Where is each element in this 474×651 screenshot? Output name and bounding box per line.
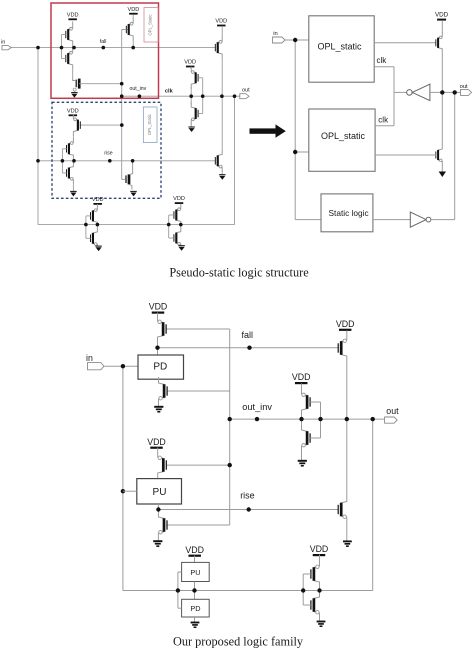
label clk (top schematic) [165, 89, 174, 95]
supply VDD T1 [149, 302, 168, 313]
box red highlight (first OPL stage) [51, 3, 159, 98]
wire vertical from input node down to keeper rail [37, 48, 39, 225]
svg-text:out: out [386, 406, 399, 416]
block PU (pull-up network) [137, 479, 182, 504]
wire M4 gate lead short [122, 29, 127, 31]
transistor T7 PMOS (above PU) [158, 451, 167, 479]
supply VDD right keeper bottom [173, 196, 185, 203]
label rise (bottom) [240, 490, 255, 500]
wire keeper PMOS M4 gate lead [122, 29, 130, 31]
node junction block (295.2,152) [293, 150, 297, 154]
svg-text:clk: clk [377, 56, 388, 65]
transistor M2 PMOS (red stage lower) [66, 47, 73, 69]
svg-text:VDD: VDD [435, 12, 449, 19]
svg-text:OPL_Static: OPL_Static [147, 114, 152, 135]
ground T4 source [298, 461, 307, 466]
svg-text:Static logic: Static logic [329, 208, 369, 218]
wire gate bracket M15/M16 [169, 215, 174, 238]
block PD keeper [182, 599, 210, 617]
svg-text:OPL_static: OPL_static [318, 41, 363, 51]
label fall (bottom) [242, 330, 254, 340]
svg-text:VDD: VDD [185, 545, 204, 555]
transistor T3 keeper PMOS (out_inv) [302, 388, 311, 416]
block PD (pull-down network) [138, 355, 184, 379]
wire T8 source to ground [157, 539, 159, 541]
wire VDD to blue chain [72, 136, 74, 191]
wire gate bracket T9/T10 [303, 574, 311, 605]
wire inverter U1 output [394, 91, 407, 93]
label fall [100, 39, 107, 45]
wire T6 source to ground [346, 524, 348, 541]
transistor T10 keeper NMOS (bottom right) [311, 591, 320, 619]
ground blue-stage stack [70, 191, 76, 196]
block PU keeper [182, 562, 210, 581]
svg-text:PU: PU [153, 487, 167, 498]
transistor M13 keeper PMOS bottom-left [91, 205, 98, 227]
wire T8 gate lead [167, 524, 229, 526]
wire VDD to T9 [319, 555, 321, 561]
transistor M6 NMOS (blue stage lower) [67, 162, 74, 184]
supply VDD PU/PD keeper [185, 545, 204, 556]
node junction (121.7,83.7) [120, 82, 124, 86]
node junction (38,47.6) [36, 46, 40, 50]
wire out_inv feedback vertical [121, 30, 123, 180]
wire left keeper chain [96, 204, 98, 205]
port out (block diagram) [460, 84, 472, 95]
node junction (121.7,96.2) [120, 94, 124, 98]
node junction bottom (346.8,419.1) [345, 417, 349, 421]
wire T10 source to ground [319, 619, 321, 621]
node junction bottom (157.5,347.7) [155, 346, 159, 350]
ground M8 source [130, 191, 136, 196]
ground right keeper [178, 246, 184, 251]
transistor Q1 PMOS (block diagram) [436, 32, 442, 53]
wire out to keeper rail vertical [234, 96, 236, 224]
ground M12 source [219, 175, 225, 180]
wire U2 output to out [431, 219, 455, 221]
wire in vertical (block diagram) [294, 40, 296, 220]
node junction (103.3,47.6) [102, 46, 106, 50]
wire out_inv/out rail (top schematic) [122, 95, 240, 97]
transistor M12 NMOS (output branch) [215, 150, 222, 172]
supply VDD (block diagram) [435, 12, 449, 20]
node junction (168.7,224.6) [167, 223, 171, 227]
box OPL_Static tag (red stage) [144, 8, 158, 43]
wire PD keeper to ground [194, 617, 196, 622]
node junction bottom (122.9,366.2) [121, 364, 125, 368]
transistor M7 keeper PMOS (blue stage) [73, 114, 80, 136]
wire PD to T2 [158, 379, 160, 381]
node junction (180.8,224.6) [179, 223, 183, 227]
label rise [104, 150, 112, 156]
node junction bottom (177.9,590.5) [176, 588, 180, 592]
wire middle keeper chain [190, 67, 192, 127]
port in (block diagram) [273, 31, 286, 43]
wire rise rail (top schematic) [38, 160, 215, 162]
wire T7 gate lead [167, 464, 230, 466]
wire T2 gate lead [167, 390, 229, 392]
svg-text:in: in [86, 353, 93, 363]
svg-text:VDD: VDD [67, 12, 79, 18]
svg-text:VDD: VDD [336, 319, 355, 329]
svg-text:rise: rise [104, 150, 112, 156]
svg-text:out_inv: out_inv [242, 402, 272, 412]
wire NMOS M3 drain to out_inv [81, 83, 122, 85]
transistor M10 keeper NMOS (clk rail) [191, 102, 198, 124]
svg-text:Pseudo-static logic structure: Pseudo-static logic structure [169, 266, 309, 280]
node junction bottom (249.5,347.7) [247, 346, 251, 350]
node junction bottom (229.7,419.1) [228, 417, 232, 421]
wire out rail (block diagram) [430, 91, 461, 93]
transistor M1 PMOS (red stage upper) [66, 23, 73, 45]
svg-text:VDD: VDD [173, 196, 185, 202]
block OPL_static 1 [309, 16, 374, 82]
label clk 2 [378, 116, 389, 125]
wire gate bracket M9/M10 [198, 78, 203, 114]
wire output branch chain lower [221, 96, 223, 174]
wire fall rail (bottom) [158, 347, 339, 349]
wire T9 drain to rail [319, 588, 321, 591]
svg-text:rise: rise [240, 490, 255, 500]
svg-text:VDD: VDD [310, 544, 329, 554]
svg-text:VDD: VDD [67, 108, 79, 114]
wire in to OPL2 [295, 151, 309, 153]
wire gate bracket T3/T4 [310, 402, 320, 438]
wire keeper rail (bottom) [178, 590, 373, 592]
wire static logic to inverter U2 [373, 219, 410, 221]
wire out right vertical [454, 92, 456, 219]
svg-text:PD: PD [190, 604, 200, 613]
svg-text:VDD: VDD [147, 437, 166, 447]
supply VDD out_inv keeper [292, 372, 311, 383]
node junction (121.8,125.1) [120, 123, 124, 127]
arrow between schematics [250, 124, 286, 137]
svg-text:Our proposed logic family: Our proposed logic family [173, 635, 304, 649]
node junction (191.2,96.2) [189, 94, 193, 98]
wire output branch chain upper [221, 26, 223, 96]
wire keeper PMOS M7 gate lead [80, 124, 122, 126]
wire out right vertical to keeper rail [372, 419, 374, 590]
supply VDD middle keeper [184, 60, 196, 67]
node junction (109.8,160.8) [108, 159, 112, 163]
node junction bottom (372.7,419.1) [371, 417, 375, 421]
ground M3 source [71, 93, 77, 98]
node junction (97.4,224.6) [96, 223, 100, 227]
wire T1 gate lead [166, 328, 229, 330]
node junction bottom (248.7,509.5) [247, 507, 251, 511]
ground middle keeper [188, 127, 194, 132]
transistor T2 NMOS (under PD) [159, 377, 168, 405]
node junction (139.4,96.2) [138, 94, 142, 98]
wire VDD to PU box [194, 556, 196, 563]
node junction (61.5,47.6) [60, 46, 64, 50]
transistor Q2 NMOS (block diagram) [436, 145, 442, 166]
svg-text:VDD: VDD [184, 60, 196, 66]
svg-text:VDD: VDD [127, 7, 139, 13]
node junction (74,47.6) [72, 46, 76, 50]
node junction block (295.2,40) [293, 38, 297, 42]
wire gate bracket M13/M14 [86, 216, 91, 238]
transistor M16 keeper NMOS bottom-right [174, 226, 181, 245]
supply VDD T5 [336, 319, 355, 330]
wire gate bracket M5/M6 [62, 149, 66, 173]
wire T3 drain to out_inv [301, 416, 303, 419]
wire in to static logic [295, 219, 321, 221]
wire T4 source to ground [301, 452, 303, 460]
svg-text:clk: clk [165, 89, 174, 95]
node junction (85.9,224.6) [84, 223, 88, 227]
node junction (133.2,47.6) [131, 46, 135, 50]
wire right keeper chain [180, 203, 182, 205]
wire OPL2 to Q2 gate [375, 154, 436, 156]
svg-text:VDD: VDD [215, 19, 227, 25]
caption pseudo-static [169, 266, 309, 280]
wire T5 drain to out [346, 362, 348, 419]
supply VDD blue-stage stack [67, 108, 79, 115]
transistor M4 keeper PMOS (red stage) [126, 18, 133, 40]
supply VDD keeper M4 [127, 7, 139, 14]
wire VDD to T5 [346, 331, 348, 335]
wire input/fall rail (top schematic) [11, 47, 215, 49]
transistor M9 keeper PMOS (clk rail) [191, 67, 198, 89]
wire rise rail (bottom) [158, 509, 338, 511]
node junction (234.5,96.2) [233, 94, 237, 98]
transistor T9 keeper PMOS (bottom right) [311, 560, 320, 588]
svg-text:fall: fall [242, 330, 254, 340]
transistor T4 keeper NMOS (out_inv) [302, 424, 311, 452]
transistor T6 NMOS (rise to out) [338, 496, 347, 524]
wire VDD to M4 chain [132, 15, 134, 48]
wire T2 source to ground [158, 405, 160, 406]
port out (top schematic) [240, 88, 250, 99]
wire VDD to T3 [301, 383, 303, 388]
node junction bottom (122.9,491.2) [121, 489, 125, 493]
node junction block (442.3,92.4) [440, 90, 444, 94]
wire clk2 to inverter [375, 125, 394, 127]
wire VDD to T1 [157, 313, 159, 316]
wire VDD to T7 [157, 448, 159, 452]
transistor M8 NMOS (blue stage right) [122, 161, 133, 190]
supply VDD output branch [215, 19, 227, 26]
transistor M3 NMOS (red stage) [73, 79, 81, 93]
wire out to T6 drain [346, 419, 348, 495]
block Static logic [321, 194, 373, 232]
node junction (221.9,96.2) [220, 94, 224, 98]
wire T1 drain to fall node [157, 343, 159, 355]
node junction block (454.7,92.4) [453, 90, 457, 94]
svg-text:clk: clk [378, 116, 389, 125]
supply VDD M1/M2 stack [67, 12, 79, 19]
node junction (202.7,96.2) [201, 94, 205, 98]
transistor M14 keeper NMOS bottom-left [91, 227, 98, 246]
wire out_inv rail (bottom) [230, 418, 385, 420]
supply VDD T7 [147, 437, 166, 448]
node junction bottom (319.5,590.5) [317, 588, 321, 592]
svg-text:in: in [273, 31, 278, 37]
wire T4 drain to out_inv [301, 419, 303, 424]
node junction bottom (158.4,509.5) [156, 507, 160, 511]
svg-text:VDD: VDD [292, 372, 311, 382]
ground PD keeper [191, 623, 200, 628]
svg-text:out_inv: out_inv [130, 86, 147, 92]
svg-text:PU: PU [190, 568, 200, 577]
ground T2 source [154, 407, 163, 412]
wire PU keeper to rail [194, 582, 196, 600]
wire PU to rise node [157, 504, 159, 511]
wire gate bracket PU/PD keeper [178, 572, 182, 608]
transistor T8 NMOS (under PU) [158, 511, 167, 539]
wire VDD to Q1 [441, 20, 443, 32]
supply VDD right keeper (bottom) [310, 544, 329, 555]
svg-text:fall: fall [100, 39, 107, 45]
ground T8 source [153, 541, 162, 546]
svg-text:out: out [242, 88, 250, 94]
label clk 1 [377, 56, 388, 65]
block OPL_static 2 [309, 109, 375, 171]
node junction (132.6,160.8) [131, 159, 135, 163]
node junction bottom (257,419.1) [255, 417, 259, 421]
node junction bottom (194.5,590.5) [192, 588, 196, 592]
wire Q1 drain to out [441, 53, 443, 92]
wire in rail (block diagram) [285, 39, 309, 41]
box OPL_Static tag (blue stage) [143, 107, 157, 143]
ground T6 source [343, 541, 352, 546]
svg-text:OPL_static: OPL_static [321, 131, 366, 141]
wire out to Q2 drain [441, 92, 443, 144]
label out_inv (top schematic) [130, 86, 147, 92]
wire VDD to M1/M2 chain [72, 21, 74, 78]
node junction (62.4,160.8) [61, 159, 65, 163]
supply VDD left keeper bottom [92, 197, 104, 204]
ground Q2 source [439, 165, 446, 177]
wire clk1 to inverter [374, 66, 394, 68]
wire gate bus vertical (out_inv feedback) [229, 329, 231, 525]
box blue dashed highlight (second OPL stage) [52, 102, 161, 198]
svg-text:VDD: VDD [149, 302, 168, 312]
port in (bottom schematic) [86, 353, 104, 370]
svg-text:PD: PD [153, 362, 167, 373]
svg-text:in: in [1, 39, 5, 45]
wire gate bracket M1/M2 [62, 35, 66, 59]
node junction (74,160.8) [72, 159, 76, 163]
transistor M5 PMOS (blue stage upper) [67, 138, 74, 160]
wire keeper feedback rail bottom [38, 224, 235, 226]
inverter U1 (clk feedback) [407, 84, 430, 100]
wire in to PU [123, 490, 137, 492]
caption proposed [173, 635, 304, 649]
node junction bottom (320.5,419.1) [318, 417, 322, 421]
label out_inv (bottom) [242, 402, 272, 412]
transistor M11 PMOS (output branch) [215, 36, 222, 58]
wire T7 drain to PU [157, 478, 159, 480]
wire in vertical / keeper rail left [123, 366, 178, 590]
wire OPL1 to PMOS gate [374, 42, 436, 44]
node junction bottom (303.2,590.5) [301, 588, 305, 592]
wire in to PD [104, 365, 138, 367]
port in (top schematic) [1, 39, 11, 49]
inverter U2 (static path) [410, 212, 431, 227]
node junction bottom (229.7,465.1) [228, 463, 232, 467]
transistor T5 PMOS (fall to out) [338, 334, 347, 362]
svg-text:OPL_Static: OPL_Static [148, 14, 153, 35]
node junction bottom (301.5,419.1) [299, 417, 303, 421]
transistor M15 keeper PMOS bottom-right [174, 204, 181, 226]
svg-text:VDD: VDD [92, 197, 104, 203]
node junction (38,160.8) [36, 159, 40, 163]
ground left keeper [95, 246, 101, 251]
port out (bottom schematic) [385, 406, 399, 423]
transistor T1 PMOS (fall precharge) [158, 315, 167, 343]
wire clk vertical [393, 67, 395, 126]
ground T10 source [317, 622, 326, 627]
